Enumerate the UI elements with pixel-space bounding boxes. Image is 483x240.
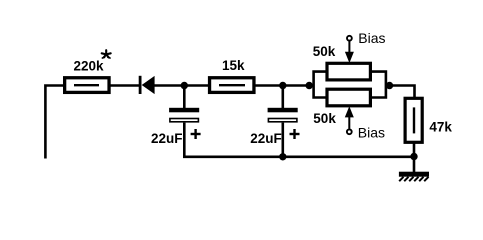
- bias bottom wire: [348, 113, 350, 129]
- capacitor C2 top plate: [268, 108, 298, 113]
- potentiometer VR1 50k top body: [327, 63, 370, 80]
- svg-text:Bias: Bias: [358, 125, 385, 141]
- bias terminal bottom circle: [347, 129, 352, 134]
- capacitor C2 bottom plate: [268, 119, 297, 122]
- wire R1 to D1: [109, 84, 139, 87]
- svg-text:15k: 15k: [222, 58, 245, 73]
- wire R2 to pots: [254, 84, 315, 87]
- diode D1 cathode bar: [139, 76, 142, 94]
- node junction dot A: [181, 82, 188, 89]
- resistor R3 47k body: [405, 98, 422, 142]
- plus sign C2: [290, 129, 300, 139]
- capacitor C2 bottom stub wire: [281, 123, 284, 157]
- bias terminal top circle: [347, 36, 352, 41]
- wire D1 to R2: [155, 84, 209, 87]
- node junction dot B: [279, 82, 286, 89]
- resistor R2 inner line: [219, 84, 245, 86]
- svg-text:22uF: 22uF: [151, 131, 183, 146]
- capacitor C1 bottom stub wire: [183, 123, 186, 157]
- resistor R1 inner line: [74, 84, 99, 86]
- capacitor C1 bottom plate: [170, 119, 199, 122]
- bias bottom arrowhead: [345, 106, 354, 117]
- resistor R1 220k body: [65, 78, 109, 93]
- node junction dot E cap2 bottom: [279, 153, 286, 160]
- potentiometer VR2 50k bottom body: [327, 89, 370, 106]
- svg-text:47k: 47k: [429, 119, 452, 134]
- resistor R2 15k body: [210, 78, 254, 93]
- bias top wire: [348, 41, 350, 56]
- capacitor C1 top plate: [169, 108, 199, 113]
- node junction dot F ground: [410, 153, 417, 160]
- ground bar: [399, 172, 429, 177]
- plus sign C1: [191, 129, 201, 139]
- wire left bracket of pots: [314, 72, 326, 98]
- diode D1 triangle: [142, 76, 155, 94]
- capacitor C1 top stub wire: [183, 86, 186, 109]
- bias top arrowhead: [345, 52, 354, 63]
- svg-text:Bias: Bias: [358, 30, 385, 46]
- node junction dot C left of pots: [306, 82, 313, 89]
- svg-text:22uF: 22uF: [250, 131, 282, 146]
- wire bottom rail: [184, 156, 414, 157]
- wire input left L-shape: [45, 86, 63, 159]
- resistor R3 inner line: [413, 107, 415, 133]
- wire R3 bottom to ground: [413, 142, 416, 173]
- capacitor C2 top stub wire: [281, 86, 284, 109]
- wire right bracket of pots: [372, 72, 386, 98]
- svg-text:220k: 220k: [74, 58, 105, 73]
- asterisk: [102, 50, 111, 58]
- svg-text:50k: 50k: [313, 111, 336, 126]
- ground hatch marks: [399, 177, 428, 181]
- svg-text:50k: 50k: [313, 44, 336, 59]
- node junction dot D right of pots: [386, 82, 393, 89]
- wire pots to R3: [390, 86, 415, 99]
